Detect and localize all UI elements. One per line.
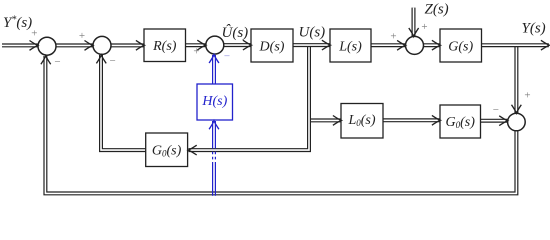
summer 2 <box>93 36 111 54</box>
blue arrow into H block bottom <box>209 121 219 129</box>
svg-text:+: + <box>79 30 85 42</box>
svg-text:+: + <box>193 46 199 58</box>
block L(s) <box>330 29 371 62</box>
wire G block to output Y(s) <box>482 43 549 47</box>
blue arrow into summer3 bottom <box>209 55 219 63</box>
blue wire summer3 to H block <box>213 55 216 85</box>
block G(s) <box>440 29 482 62</box>
svg-text:+: + <box>421 21 427 33</box>
arrow into right summer top <box>512 105 522 113</box>
block G0(s) left <box>146 133 188 167</box>
arrow into summer1 bottom <box>41 56 51 64</box>
wire summer3 to D block <box>224 43 251 47</box>
blue wire lower solid to bottom feedback <box>213 164 216 196</box>
arrow into summer2 left <box>85 41 93 51</box>
svg-text:U(s): U(s) <box>299 25 326 41</box>
wire summer1 to summer2 <box>56 43 93 47</box>
blue wire below H block solid <box>213 121 216 149</box>
arrow into G0 left block (pointing left) <box>188 145 196 155</box>
wire Y branch down to right summer <box>514 46 518 113</box>
arrow into R block <box>136 40 144 50</box>
svg-text:Y(s): Y(s) <box>522 21 546 37</box>
wire summer2 to R block <box>111 43 144 47</box>
svg-text:Û(s): Û(s) <box>222 24 249 41</box>
arrow into right summer left <box>499 116 507 126</box>
blue wire dashed crossing <box>213 152 216 164</box>
svg-text:L(s): L(s) <box>338 40 362 55</box>
svg-text:L0(s): L0(s) <box>347 113 375 128</box>
svg-text:G0(s): G0(s) <box>152 144 182 159</box>
wire L block to summer4 <box>371 43 405 47</box>
block L0(s) <box>341 104 383 139</box>
arrow into L0 block <box>333 116 341 126</box>
wire R block to summer3 <box>186 43 206 47</box>
wire G0 left output to second summer <box>101 55 146 150</box>
svg-text:+: + <box>31 28 37 40</box>
wire L0 to G0 right <box>383 118 440 122</box>
wire Z input <box>412 8 416 37</box>
arrow into summer2 bottom <box>96 55 106 63</box>
svg-text:G(s): G(s) <box>448 40 473 55</box>
wire input Y*(s) to first summer <box>2 43 38 47</box>
arrow into summer3 left <box>197 40 205 50</box>
wire branch U to L0 <box>308 118 341 122</box>
arrow into summer1 left <box>29 41 37 51</box>
block G0(s) right <box>440 105 481 138</box>
svg-text:Y*(s): Y*(s) <box>3 15 32 32</box>
wire U branch down and left to G0 left block <box>189 46 310 150</box>
svg-text:−: − <box>54 56 60 68</box>
arrow into D block <box>243 40 251 50</box>
arrow into G0 right block <box>432 115 440 125</box>
svg-text:R(s): R(s) <box>152 39 177 54</box>
block D(s) <box>251 29 293 62</box>
wire D block to L block with U(s) node <box>293 43 330 47</box>
arrow into summer4 left <box>397 40 405 50</box>
svg-text:H(s): H(s) <box>201 94 227 109</box>
summer 1 <box>38 37 56 55</box>
svg-text:G0(s): G0(s) <box>445 115 475 130</box>
arrow into L block <box>322 40 330 50</box>
svg-text:+: + <box>390 31 396 43</box>
svg-text:−: − <box>109 55 115 67</box>
svg-text:Z(s): Z(s) <box>425 2 449 18</box>
arrow into G block <box>432 40 440 50</box>
arrow output Y(s) <box>541 40 549 50</box>
arrow into summer4 top from Z <box>409 28 419 36</box>
svg-text:D(s): D(s) <box>259 40 285 55</box>
wire G0 right to right summer <box>481 119 508 123</box>
block H(s) blue <box>197 84 233 120</box>
svg-text:−: − <box>224 51 230 63</box>
summer 4 <box>406 36 424 54</box>
block R(s) <box>144 29 186 62</box>
wire summer4 to G block <box>423 43 440 47</box>
summer 5 right <box>508 113 526 131</box>
svg-text:−: − <box>493 104 499 116</box>
svg-text:+: + <box>524 90 530 102</box>
wire outer feedback loop from right summer to first summer <box>45 56 516 193</box>
summer 3 <box>206 36 224 54</box>
